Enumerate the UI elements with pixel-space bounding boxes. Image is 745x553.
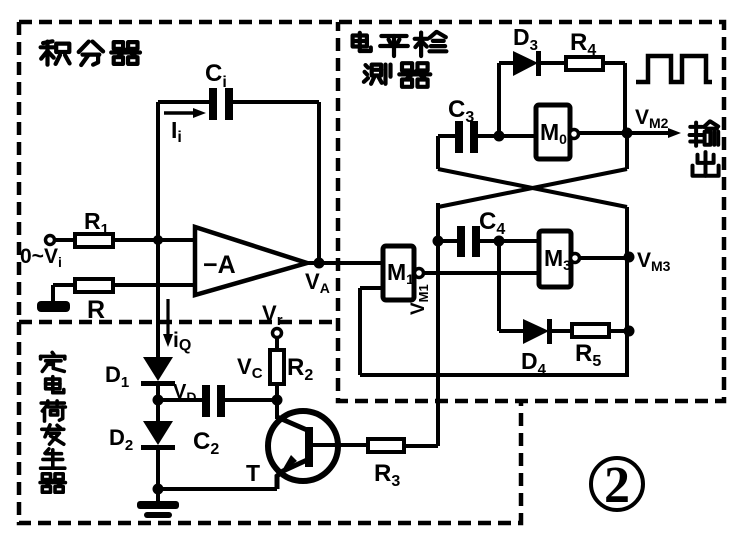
svg-text:T: T [246, 460, 260, 486]
svg-text:−A: −A [203, 251, 236, 279]
svg-text:0~Vi: 0~Vi [20, 245, 62, 270]
svg-text:R: R [87, 296, 105, 324]
svg-text:2: 2 [604, 457, 630, 514]
